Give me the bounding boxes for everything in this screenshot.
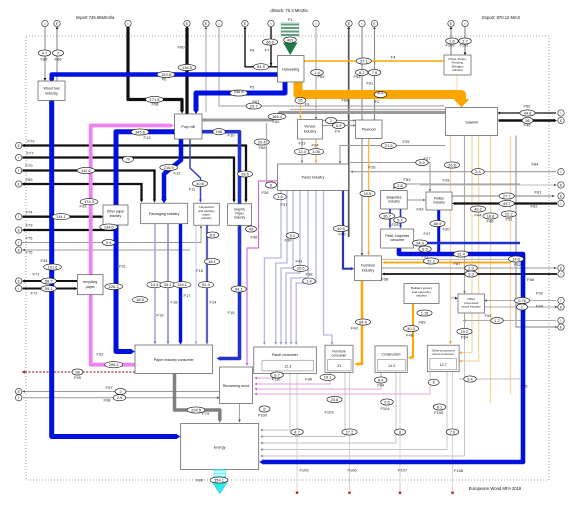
svg-text:F52: F52: [514, 262, 522, 267]
svg-text:F30: F30: [443, 227, 451, 232]
node terminal E right: [558, 193, 564, 199]
node terminal E left: [16, 388, 22, 394]
svg-text:94.9: 94.9: [416, 240, 424, 245]
svg-text:216.9: 216.9: [164, 165, 174, 170]
node terminal I right: [558, 110, 564, 116]
wire sawmill gray out to E327: [516, 136, 556, 328]
svg-text:F70: F70: [26, 163, 34, 168]
value label 1.7: [459, 38, 472, 44]
svg-text:F32: F32: [97, 352, 105, 357]
svg-text:9.4: 9.4: [106, 240, 112, 245]
wire consumer return g1: [262, 374, 290, 430]
svg-text:114.1: 114.1: [56, 214, 65, 219]
wire F27 panel to pellets: [349, 163, 430, 191]
value label 2: [326, 117, 337, 123]
svg-text:1.4: 1.4: [306, 278, 312, 283]
svg-text:wood consumer: wood consumer: [432, 352, 454, 356]
value label 33.1: [160, 282, 175, 288]
svg-text:F95: F95: [521, 384, 529, 389]
wire F75 import: [23, 227, 202, 243]
value label 81.9: [253, 64, 268, 70]
cyan energy output band: [212, 470, 228, 494]
wire furniture black import: [384, 273, 558, 275]
svg-text:industry: industry: [362, 268, 375, 272]
value label 112.6: [77, 167, 95, 173]
value label 354.1: [210, 477, 228, 483]
value label 6: [266, 182, 277, 188]
svg-text:126.1: 126.1: [177, 282, 187, 287]
value label 9.6: [381, 399, 394, 405]
svg-text:12.7: 12.7: [440, 363, 447, 367]
svg-text:9.6: 9.6: [384, 399, 389, 404]
svg-text:2: 2: [330, 118, 332, 123]
svg-text:0.76: 0.76: [518, 298, 526, 303]
box construction: [375, 346, 407, 373]
svg-text:Plywood: Plywood: [362, 128, 376, 132]
wire F5 harvest to pulp: [196, 81, 285, 111]
value label 70: [123, 156, 134, 162]
svg-text:F48: F48: [406, 333, 414, 338]
wire veneer to plywood 2: [323, 125, 355, 127]
svg-text:industry: industry: [110, 214, 122, 218]
svg-text:I: I: [561, 319, 562, 323]
wire into opw industry left: [451, 297, 456, 299]
svg-text:F37: F37: [281, 202, 289, 207]
svg-text:F44: F44: [475, 213, 483, 218]
svg-text:F36: F36: [262, 190, 270, 195]
value label 16.5: [293, 265, 308, 271]
wire sawmill pale out 5: [510, 136, 512, 395]
svg-text:94.1: 94.1: [235, 286, 243, 291]
svg-text:23.8: 23.8: [331, 397, 339, 402]
svg-text:F76: F76: [26, 250, 34, 255]
svg-text:F27: F27: [424, 156, 432, 161]
wire F83 to briquettes: [394, 184, 520, 188]
svg-text:F43: F43: [417, 207, 425, 212]
value label 226.3: [105, 283, 123, 289]
wire F86 wood fuel export: [56, 28, 58, 82]
wire F50 sawmill import: [499, 112, 556, 114]
svg-text:2.8: 2.8: [397, 183, 402, 188]
wire panel bundle a: [264, 191, 281, 344]
svg-text:F89: F89: [419, 320, 427, 325]
wire F77 row to graphic: [23, 158, 235, 201]
value label 55.1: [41, 285, 56, 291]
box wood fuel industry: [38, 81, 65, 101]
svg-text:dStock: 70.3 Mm3/a: dStock: 70.3 Mm3/a: [270, 8, 308, 13]
node terminal E top: [448, 20, 454, 26]
value label 56: [522, 117, 533, 123]
svg-text:F60: F60: [178, 45, 186, 50]
svg-text:224.5: 224.5: [191, 407, 201, 412]
value label 1: [517, 304, 528, 310]
svg-text:9.1: 9.1: [437, 404, 442, 409]
value label 15.2: [457, 328, 472, 334]
wire big blue right to energy: [263, 247, 524, 462]
node terminal E left: [16, 142, 22, 148]
svg-text:2: 2: [119, 389, 121, 394]
svg-text:55.1: 55.1: [45, 286, 53, 291]
svg-text:F61: F61: [367, 81, 375, 86]
svg-text:F101: F101: [459, 43, 469, 48]
svg-text:F84: F84: [532, 162, 540, 167]
wire F95 opw consumer export: [459, 378, 520, 380]
wire sawmill pale out 2: [461, 136, 472, 353]
wire F61 plywood export: [374, 28, 376, 129]
node terminal I top: [42, 20, 48, 26]
wire poles stub down: [456, 76, 458, 106]
box packaging industry: [141, 203, 188, 224]
value label 22.2: [501, 211, 516, 217]
svg-text:I: I: [18, 156, 19, 160]
svg-text:consumer: consumer: [390, 238, 405, 242]
wire F48 builders to construction: [410, 304, 413, 358]
wire F98 recovered import: [23, 397, 219, 399]
wire F97 recovered export: [24, 391, 220, 393]
wire F17 packaging to consumer: [179, 224, 182, 342]
value label 224.5: [187, 407, 205, 413]
value label 114.1: [52, 214, 70, 220]
value label 43.7: [499, 200, 514, 206]
svg-text:I: I: [561, 202, 562, 206]
svg-text:F79: F79: [28, 139, 36, 144]
svg-text:14.8: 14.8: [512, 256, 520, 261]
svg-text:16.1: 16.1: [324, 375, 332, 380]
box other paper industry: [103, 205, 128, 225]
svg-text:3.4: 3.4: [475, 169, 481, 174]
value label 136.5: [178, 64, 196, 70]
svg-text:226.3: 226.3: [109, 284, 119, 289]
wire F26 plywood to furniture: [368, 139, 370, 254]
wire F65 import: [315, 27, 317, 118]
svg-text:F99: F99: [74, 375, 82, 380]
svg-text:F82: F82: [273, 119, 281, 124]
value label 17.2: [342, 429, 357, 435]
svg-text:F28: F28: [443, 178, 451, 183]
svg-text:354.1: 354.1: [214, 477, 224, 482]
svg-text:I: I: [18, 215, 19, 219]
svg-text:43: 43: [249, 226, 253, 231]
node terminal E top: [242, 20, 248, 26]
svg-text:F107: F107: [398, 468, 408, 473]
value label 18.1: [204, 258, 219, 264]
svg-text:191.6: 191.6: [48, 264, 58, 269]
svg-text:136.5: 136.5: [182, 65, 192, 70]
svg-text:F94: F94: [536, 304, 544, 309]
wire F10 F15 pulp right down to paper consumer: [202, 132, 240, 359]
value label 126.1: [173, 282, 191, 288]
node terminal E top: [54, 20, 60, 26]
wire F101 poles import: [464, 27, 466, 53]
svg-text:F102: F102: [445, 43, 455, 48]
wire F102 poles export: [450, 28, 452, 56]
svg-text:Wood fuel: Wood fuel: [43, 87, 59, 91]
svg-text:Harvesting: Harvesting: [282, 68, 299, 72]
box pulp mill: [175, 114, 203, 139]
wire to border dot F107: [399, 372, 401, 491]
value label 66.6: [262, 39, 277, 45]
svg-text:26: 26: [298, 98, 302, 103]
wire F62 pellets import black: [454, 202, 557, 204]
svg-text:F18: F18: [171, 300, 179, 305]
wire chips export E: [205, 28, 207, 113]
svg-text:16.7: 16.7: [383, 213, 391, 218]
node terminal E right: [558, 265, 564, 271]
value label 40.6: [192, 180, 207, 186]
wire sawmill pale out 1: [450, 136, 452, 343]
wire briquettes to consumer 1: [389, 209, 391, 227]
value label 43: [246, 226, 257, 232]
value label 8: [395, 429, 406, 435]
value label 206.1: [105, 362, 123, 368]
svg-text:Pulp mill: Pulp mill: [181, 125, 195, 129]
svg-text:F33: F33: [80, 204, 88, 209]
wire F18: [167, 224, 169, 343]
wire F4 harvest to poles: [304, 60, 442, 62]
svg-text:F58: F58: [152, 102, 160, 107]
wire consumer return g5: [262, 340, 465, 456]
value label 5.7: [394, 217, 407, 223]
wire F25 sawmill to panel: [340, 146, 446, 163]
value label 166.4: [268, 113, 286, 119]
wire sawmill gray out to opw industry: [464, 136, 466, 293]
svg-text:F6: F6: [162, 77, 167, 82]
svg-text:26.8: 26.8: [448, 162, 456, 167]
wire panel bundle c: [281, 191, 293, 344]
svg-text:F11: F11: [189, 187, 196, 192]
box poles posts fencing shingles: [444, 55, 471, 75]
wire F23 veneer to panel: [301, 139, 303, 162]
box recycling paper: [78, 275, 104, 295]
value label 3.3: [465, 271, 478, 277]
svg-text:4.7: 4.7: [42, 50, 47, 55]
wire F19: [154, 224, 156, 343]
wire sawmill pale out 3: [461, 136, 479, 362]
value label 7.6: [368, 69, 381, 75]
box furniture industry: [355, 256, 382, 281]
value label 345.6: [131, 129, 149, 135]
svg-text:40.6: 40.6: [337, 226, 345, 231]
value label 3.4: [464, 376, 477, 382]
svg-text:F61: F61: [535, 190, 543, 195]
value label 20.4: [254, 139, 269, 145]
svg-text:F21: F21: [119, 264, 127, 269]
wire panel bundle f: [296, 191, 316, 344]
wire F76 export: [24, 249, 190, 251]
wire F69 row to packaging: [23, 184, 142, 200]
node terminal I right: [558, 200, 564, 206]
node terminal I left: [16, 239, 22, 245]
value label 7.6: [446, 429, 459, 435]
svg-text:F90: F90: [305, 377, 313, 382]
value label 1.6: [274, 194, 287, 200]
value label 174.3: [80, 199, 98, 205]
svg-text:F8: F8: [250, 48, 255, 53]
svg-text:401: 401: [377, 90, 384, 95]
wire F7 harvest import: [270, 27, 272, 67]
value label 16.7: [379, 213, 394, 219]
svg-text:F17: F17: [184, 293, 192, 298]
svg-text:15.2: 15.2: [461, 329, 469, 334]
svg-text:14.4: 14.4: [151, 282, 159, 287]
box household sanitary paper: [194, 203, 220, 225]
svg-text:31.4: 31.4: [457, 251, 465, 256]
svg-text:F73: F73: [26, 223, 34, 228]
wire panel bundle e: [291, 191, 308, 344]
svg-text:F29: F29: [392, 222, 400, 227]
box panel industry: [278, 164, 349, 191]
value label 9.1: [433, 404, 446, 410]
value label 52.2: [423, 258, 438, 264]
svg-text:consumer: consumer: [332, 354, 348, 358]
value label 18.8: [483, 213, 498, 219]
value label 66.9: [430, 220, 445, 226]
wire F16: [195, 226, 197, 343]
svg-text:Europeann Wood MFA 2018: Europeann Wood MFA 2018: [469, 486, 522, 491]
svg-text:F25: F25: [403, 139, 411, 144]
value label 16.1: [320, 374, 335, 380]
svg-text:3.06: 3.06: [312, 149, 320, 154]
node red dot F106: [348, 492, 350, 494]
wire briquettes to consumer 2: [400, 209, 402, 227]
wire F71 recycling export: [24, 280, 77, 282]
svg-text:345.6: 345.6: [135, 129, 145, 134]
value label 1.4: [303, 278, 316, 284]
value label 5.9: [332, 122, 345, 128]
svg-text:F106: F106: [347, 468, 357, 473]
svg-text:1.2: 1.2: [494, 318, 499, 323]
svg-text:Sawmill: Sawmill: [465, 120, 478, 124]
svg-text:I: I: [362, 22, 363, 26]
svg-text:F92: F92: [536, 291, 544, 296]
svg-text:66.6: 66.6: [266, 39, 274, 44]
svg-text:F108: F108: [454, 468, 464, 473]
wire to border dot F106: [349, 372, 351, 491]
svg-text:3.4: 3.4: [467, 376, 473, 381]
svg-text:industry: industry: [304, 130, 317, 134]
node terminal E right: [558, 117, 564, 123]
wire sawmill pale out 4: [490, 136, 492, 404]
svg-text:F9: F9: [335, 129, 340, 134]
svg-text:Panel industry: Panel industry: [302, 176, 325, 180]
value label 18.5: [132, 297, 147, 303]
value label 8: [428, 379, 439, 385]
node terminal I left: [16, 167, 22, 173]
svg-text:Construction: Construction: [381, 352, 400, 356]
svg-text:F58: F58: [381, 277, 389, 282]
svg-text:I: I: [271, 22, 272, 26]
svg-text:10.5: 10.5: [364, 191, 372, 196]
value label 9.2: [286, 232, 299, 238]
box paper industry consumer: [135, 345, 213, 374]
svg-text:F100: F100: [258, 413, 268, 418]
wire F14: [206, 226, 208, 343]
svg-text:I: I: [219, 22, 220, 26]
svg-text:F54: F54: [461, 335, 469, 340]
wire F54 opw ind to consumer: [464, 313, 466, 340]
svg-text:8: 8: [399, 429, 401, 434]
wire F11 pulp to household: [190, 139, 201, 201]
value label 14.8: [508, 256, 523, 262]
svg-text:industry: industry: [45, 92, 58, 96]
value label 26: [295, 97, 306, 103]
value label 12.4: [294, 149, 309, 155]
wire furniture gray F52: [382, 259, 520, 261]
svg-text:F47: F47: [424, 231, 432, 236]
svg-text:I: I: [561, 299, 562, 303]
svg-text:40.6: 40.6: [196, 181, 204, 186]
node terminal E top: [203, 20, 209, 26]
svg-text:F63: F63: [354, 74, 362, 79]
svg-text:I: I: [18, 241, 19, 245]
wire F9 dark vertical from E: [348, 28, 350, 238]
value label 37.1: [356, 58, 371, 64]
value label 193.8: [157, 71, 175, 77]
wire F74 import to other paper: [23, 216, 102, 218]
svg-text:industry: industry: [416, 294, 427, 298]
node terminal E left: [16, 181, 22, 187]
wire F13 F21 pulp to paper consumer: [116, 132, 175, 352]
svg-text:44.6: 44.6: [524, 110, 532, 115]
wire F6 harvest to wood fuel: [52, 75, 280, 80]
svg-text:21.5: 21.5: [385, 143, 393, 148]
box recovering wood: [220, 367, 253, 404]
wire briquettes to pellets F43: [407, 199, 424, 201]
svg-text:98: 98: [75, 369, 79, 374]
box furniture consumer: [325, 345, 353, 372]
svg-text:F68: F68: [259, 145, 267, 150]
svg-text:F16: F16: [196, 268, 204, 273]
svg-text:F97: F97: [106, 385, 114, 390]
svg-text:2.9: 2.9: [117, 395, 122, 400]
wire veneer to plywood 1: [323, 120, 355, 122]
wire F79 row to graphic: [23, 146, 247, 201]
svg-text:F79: F79: [202, 411, 210, 416]
wire F28 export: [420, 184, 555, 186]
svg-text:F2: F2: [375, 99, 380, 104]
svg-text:7.6: 7.6: [450, 429, 455, 434]
svg-text:8: 8: [263, 406, 265, 411]
value label 8.5: [419, 246, 432, 252]
box briquettes industry: [381, 191, 408, 210]
node terminal I right: [558, 317, 564, 323]
node terminal I top: [268, 20, 274, 26]
svg-text:Panel consumer: Panel consumer: [272, 353, 299, 357]
arrow blue into other paper industry: [113, 201, 118, 205]
svg-text:Recovering wood: Recovering wood: [223, 384, 249, 388]
value label 6.7: [271, 372, 284, 378]
value label 1.2: [491, 317, 504, 323]
wire F93 import: [465, 320, 557, 322]
svg-text:F65: F65: [318, 74, 326, 79]
svg-text:F110: F110: [272, 377, 282, 382]
wire F67 import to sawmill: [219, 27, 445, 106]
node terminal E left: [16, 227, 22, 233]
svg-text:206.1: 206.1: [109, 362, 119, 367]
box graphic paper industry: [228, 204, 252, 226]
svg-text:12.4: 12.4: [298, 149, 306, 154]
value label 2.8: [394, 182, 407, 188]
svg-text:F62: F62: [531, 204, 539, 209]
wire F49 sawmill export black: [499, 119, 556, 122]
svg-text:F24: F24: [312, 143, 320, 148]
svg-text:31: 31: [337, 364, 341, 368]
value label 8.5: [206, 232, 219, 238]
wire panel to furniture consumer g: [324, 191, 333, 344]
box veneer industry: [298, 120, 323, 140]
svg-text:F96: F96: [251, 235, 259, 240]
wire F58 import to pulp: [128, 27, 182, 111]
